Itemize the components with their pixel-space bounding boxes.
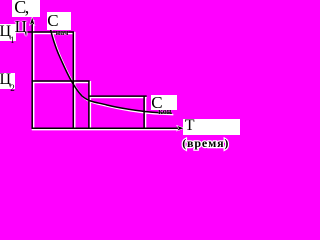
svg-text:(время): (время) (182, 136, 229, 150)
